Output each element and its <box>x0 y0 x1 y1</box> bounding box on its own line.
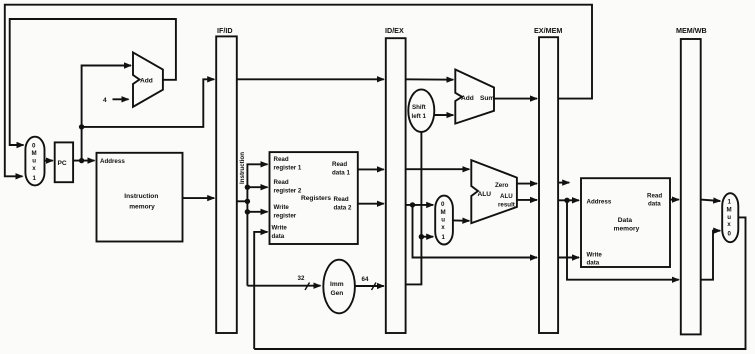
wire ID/EX PC out to Add Sum <box>406 78 454 80</box>
svg-text:Imm: Imm <box>330 281 344 288</box>
svg-text:data: data <box>648 201 661 208</box>
wire constant 4 into Add <box>113 98 129 100</box>
wire MEM/WB read data to WB mux input 1 <box>701 200 721 201</box>
shift left 1 unit <box>408 89 434 132</box>
wire ID/EX Read data 1 to ALU <box>406 168 470 170</box>
adder Add (PC+4) <box>133 52 163 106</box>
svg-text:memory: memory <box>129 204 155 211</box>
svg-text:u: u <box>441 217 445 224</box>
svg-text:result: result <box>498 202 515 209</box>
pipeline register IF/ID <box>216 36 237 333</box>
svg-text:4: 4 <box>103 97 107 104</box>
wire data memory Read data to MEM/WB <box>670 199 679 201</box>
svg-text:x: x <box>727 221 731 228</box>
pipeline register MEM/WB <box>681 39 701 334</box>
wire EX/MEM ALU result to data memory Address <box>558 199 579 201</box>
wire Imm Gen out to ID/EX <box>355 285 384 287</box>
svg-text:Data: Data <box>618 217 633 224</box>
wire MEM/WB ALU result to WB mux input 0 <box>701 231 721 280</box>
svg-text:32: 32 <box>298 275 305 282</box>
wire immediate to ALU mux input 1 <box>421 236 433 238</box>
svg-text:0: 0 <box>441 201 445 208</box>
svg-text:Address: Address <box>100 158 125 165</box>
mux ALU-operand <box>435 196 453 245</box>
wire instruction to Write register <box>247 211 267 213</box>
svg-text:M: M <box>727 207 732 214</box>
svg-text:memory: memory <box>614 226 640 233</box>
junction instruction read register 2 <box>245 185 250 190</box>
svg-text:ALU: ALU <box>500 193 513 200</box>
wire ID/EX Read data 2 to ALU mux input 0 <box>406 204 434 206</box>
svg-text:Write: Write <box>587 252 603 259</box>
wire Read data 2 down to EX/MEM <box>413 205 538 258</box>
svg-text:PC: PC <box>58 160 67 167</box>
wire Read data 1 to ID/EX <box>358 168 384 170</box>
svg-text:register: register <box>274 213 297 220</box>
pipeline register ID/EX <box>386 38 406 333</box>
bus width slash 32 <box>305 283 310 291</box>
wire IF/ID PC out to ID/EX <box>237 78 384 80</box>
wire ALU result down to MEM/WB <box>567 200 679 279</box>
svg-text:Shift: Shift <box>412 104 426 111</box>
wire PC up to Add top input <box>82 66 131 161</box>
junction PC to IF/ID branch <box>79 124 84 129</box>
svg-text:data: data <box>587 260 600 267</box>
junction instruction node <box>245 199 250 204</box>
wire Shift left 1 out to Add Sum <box>434 114 453 116</box>
svg-text:x: x <box>441 224 445 231</box>
wire branch-target top: EX/MEM out to PC mux input 1 <box>5 5 592 177</box>
svg-text:EX/MEM: EX/MEM <box>534 26 562 35</box>
svg-text:1: 1 <box>33 175 37 182</box>
pipeline register EX/MEM <box>539 37 558 333</box>
wire PC+4 loop: Add out to PC mux input 0 <box>10 19 176 145</box>
wire ALU mux out to ALU <box>453 219 469 221</box>
svg-text:data: data <box>272 233 285 240</box>
svg-text:Instruction: Instruction <box>124 193 158 200</box>
svg-text:Zero: Zero <box>495 182 509 189</box>
mux PC-source <box>25 137 44 186</box>
svg-text:64: 64 <box>362 276 369 283</box>
junction ALU result <box>564 198 569 203</box>
wire ALU Zero out to EX/MEM <box>517 183 537 185</box>
svg-text:1: 1 <box>442 234 446 241</box>
wire ALU result out to EX/MEM <box>517 199 537 201</box>
svg-text:Instruction: Instruction <box>239 152 246 184</box>
svg-text:ID/EX: ID/EX <box>385 26 404 35</box>
svg-text:register 2: register 2 <box>274 188 302 195</box>
svg-text:Read: Read <box>334 196 349 203</box>
svg-text:ALU: ALU <box>478 191 492 198</box>
svg-text:M: M <box>32 150 37 157</box>
adder Add Sum (branch target) <box>455 70 494 124</box>
wire PC mux out to PC <box>45 160 53 162</box>
PC register <box>55 142 73 182</box>
wire Add Sum out to EX/MEM <box>494 98 537 100</box>
svg-text:1: 1 <box>728 199 732 206</box>
svg-text:Write: Write <box>274 204 290 211</box>
svg-text:Read: Read <box>274 156 289 163</box>
svg-text:Read: Read <box>332 161 347 168</box>
svg-text:Add: Add <box>461 95 474 102</box>
registers file <box>270 152 358 244</box>
mux write-back <box>722 193 738 242</box>
svg-text:Read: Read <box>274 179 289 186</box>
svg-text:Gen: Gen <box>331 290 344 297</box>
svg-text:Write: Write <box>272 225 288 232</box>
wire PC to IF/ID <box>82 79 215 127</box>
wire write-back to Write data <box>254 232 267 349</box>
wire instruction vertical distribution <box>247 164 267 285</box>
wire Read data 2 to ID/EX <box>358 203 384 205</box>
bus width slash 64 <box>372 283 377 291</box>
svg-text:data 2: data 2 <box>334 205 352 212</box>
imm gen unit <box>323 260 355 314</box>
svg-text:0: 0 <box>728 231 732 238</box>
wire instruction to Read register 2 <box>247 186 267 188</box>
wire WB mux out to write-back bottom run <box>254 217 745 349</box>
ALU U1 <box>471 160 517 223</box>
svg-text:0: 0 <box>32 143 36 150</box>
data memory <box>581 178 670 267</box>
svg-text:Address: Address <box>587 199 612 206</box>
junction instruction write register <box>245 209 250 214</box>
svg-text:u: u <box>32 158 36 165</box>
svg-text:u: u <box>727 214 731 221</box>
svg-text:data 1: data 1 <box>332 170 350 177</box>
wire instruction memory out to IF/ID <box>183 197 215 199</box>
svg-text:M: M <box>441 209 446 216</box>
svg-text:Read: Read <box>647 193 662 200</box>
wire EX/MEM write data to data memory <box>558 257 579 259</box>
svg-text:IF/ID: IF/ID <box>217 26 233 35</box>
svg-text:Sum: Sum <box>480 95 494 102</box>
junction immediate to mux <box>419 234 424 239</box>
svg-text:MEM/WB: MEM/WB <box>676 26 707 35</box>
wire ID/EX immediate out up to Shift left 1 <box>406 132 422 285</box>
svg-text:Add: Add <box>140 78 153 85</box>
wire instruction out of IF/ID <box>237 200 248 202</box>
junction PC out <box>79 158 84 163</box>
instruction memory <box>97 153 183 242</box>
junction read data 2 <box>410 202 415 207</box>
wire PC out to instruction memory Address <box>73 160 94 162</box>
wire instruction to Imm Gen <box>247 285 320 287</box>
wire EX/MEM Zero stub <box>558 182 569 184</box>
svg-text:Registers: Registers <box>301 195 331 202</box>
svg-text:register 1: register 1 <box>274 165 302 172</box>
svg-text:left 1: left 1 <box>412 113 427 120</box>
svg-text:x: x <box>32 165 36 172</box>
